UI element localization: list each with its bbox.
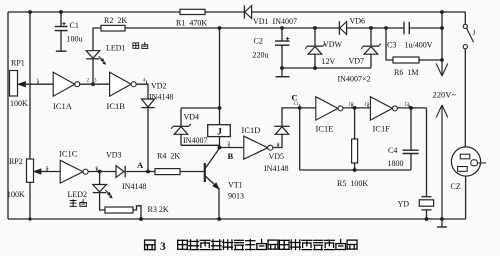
wire IC1F out down to YD [426, 108, 428, 197]
junction mains bus top [440, 10, 444, 14]
svg-text:IC1B: IC1B [107, 101, 126, 111]
svg-text:IC1C: IC1C [59, 149, 78, 159]
wire mains bus vertical [441, 12, 443, 60]
svg-text:IC1A: IC1A [53, 101, 73, 111]
resistor R6 [393, 57, 419, 63]
ground at mains bottom [441, 219, 443, 227]
svg-text:J: J [217, 127, 222, 137]
svg-text:12V: 12V [322, 57, 336, 66]
wire R4 to VT1 base [180, 171, 204, 173]
wire from C3 to mains bus [409, 27, 442, 29]
svg-text:RP1: RP1 [11, 59, 25, 68]
wire IC1C out [88, 171, 116, 173]
junction LED1 at gate node [91, 82, 95, 86]
svg-text:R1 470K: R1 470K [176, 18, 207, 27]
wire VD2 cathode down to node A [147, 108, 149, 171]
svg-text:VD4: VD4 [184, 113, 200, 122]
svg-text:3: 3 [160, 241, 166, 253]
svg-text:C4: C4 [388, 146, 397, 155]
junction R5 bottom [353, 168, 357, 172]
potentiometer RP2 [27, 159, 34, 182]
wire C2 stem top [281, 28, 283, 41]
wire VD4 loop bottom [181, 144, 220, 146]
junction mains bus at C3 wire [440, 26, 444, 30]
wire rectifier ground bus [282, 67, 371, 69]
zener diode VDW [307, 45, 323, 47]
inverter IC1E [316, 97, 338, 120]
svg-text:RP2: RP2 [9, 157, 23, 166]
wire oscillator feedback bottom [300, 169, 411, 171]
svg-text:13: 13 [364, 103, 370, 108]
wire second rail upper [29, 12, 31, 159]
wire IC1C out down to LED2 [99, 172, 101, 185]
svg-text:R5 100K: R5 100K [337, 179, 368, 188]
wire second rail lower [29, 182, 31, 219]
inverter IC1F [370, 97, 392, 120]
svg-text:VD1 IN4007: VD1 IN4007 [253, 17, 297, 26]
wire R5 stem top [354, 108, 356, 139]
svg-text:A: A [137, 160, 144, 170]
transistor VT1 [204, 163, 206, 182]
wire C1 stem [60, 12, 62, 27]
wire VDW stem top [314, 28, 316, 46]
wire VD4 left upper [180, 108, 182, 126]
wire top rail between R1 and VD1 [205, 11, 244, 13]
wire bottom ground rail [8, 218, 466, 220]
svg-text:YD: YD [398, 200, 410, 209]
wire left rail [7, 12, 9, 219]
svg-text:J: J [473, 29, 476, 37]
resistor R5 [352, 139, 358, 163]
junction second rail top [28, 10, 32, 14]
wire R6 right to mains bus [419, 59, 442, 61]
wire top rail right (mains side) [252, 11, 465, 13]
ground for C1 [56, 50, 67, 52]
svg-text:R3 2K: R3 2K [148, 205, 169, 214]
wire VD7 stem top [370, 28, 372, 46]
svg-text:9013: 9013 [228, 192, 244, 201]
svg-text:R2 2K: R2 2K [104, 16, 127, 25]
wire VDD rail from R2 to VD6 [125, 27, 339, 29]
wire top rail left segment [8, 11, 180, 13]
node C [298, 106, 302, 110]
wire node B to IC1D [220, 147, 244, 149]
svg-text:VD7: VD7 [349, 57, 365, 66]
wire VDD to relay bus [219, 28, 221, 148]
wire VD7 stem bottom [370, 54, 372, 68]
svg-text:IN4007: IN4007 [183, 136, 207, 145]
wire VD5 up to node C wire [282, 108, 300, 126]
svg-text:CZ: CZ [451, 182, 461, 191]
svg-text:IN4007×2: IN4007×2 [338, 75, 371, 84]
wire IC1E out to IC1F in [343, 107, 370, 109]
wire switch to CZ socket [464, 49, 466, 147]
junction R5 tap [353, 106, 357, 110]
wire VT1 emitter to ground rail [218, 188, 220, 219]
diode VD6 [338, 21, 340, 35]
switch J [464, 12, 466, 24]
wire C4 top stem [410, 108, 412, 150]
junction relay bus at VDD rail [218, 26, 222, 30]
wire R6 left riser [386, 28, 393, 60]
svg-text:IN4148: IN4148 [122, 182, 146, 191]
svg-text:220u: 220u [253, 51, 269, 60]
diode VD1 [243, 5, 245, 19]
junction C2 bottom [280, 66, 284, 70]
inverter IC1D [244, 136, 268, 159]
inverter IC1C [60, 160, 83, 183]
junction VDW bottom [313, 66, 317, 70]
junction R6 left tap [384, 26, 388, 30]
wire YD to ground rail [426, 210, 428, 219]
junction YD at ground rail [425, 217, 429, 221]
wire R5 stem bottom [354, 163, 356, 170]
capacitor C1 [55, 26, 68, 28]
wire node C down [299, 108, 301, 170]
diode VD2 [142, 99, 155, 107]
ground for C2 [281, 68, 283, 77]
pin tick marks at inverter pins [37, 81, 39, 84]
mains terminal arrow up [441, 105, 443, 219]
svg-text:C: C [292, 93, 298, 103]
inverter IC1B [110, 72, 132, 96]
junction LED2 tap [98, 170, 102, 174]
wire R3 to ground rail [133, 206, 141, 219]
svg-text:C1: C1 [70, 21, 79, 30]
resistor R3 [105, 207, 133, 213]
svg-text:R6 1M: R6 1M [394, 68, 418, 77]
wiper arrow RP2 [39, 171, 60, 173]
svg-text:1u/400V: 1u/400V [405, 41, 433, 50]
svg-text:LED2: LED2 [68, 190, 88, 199]
capacitor C3 [403, 22, 405, 34]
socket CZ [451, 147, 480, 176]
diode VD5 [274, 125, 290, 127]
wire IC1B output [136, 84, 148, 99]
wire VD4 loop top [181, 107, 220, 109]
svg-text:11: 11 [294, 102, 299, 107]
junction mains bus at R6 wire [440, 58, 444, 62]
svg-text:VD2: VD2 [151, 82, 167, 91]
resistor R4 [155, 169, 180, 175]
caption figure 3 title [145, 240, 155, 250]
capacitor C2 [275, 40, 290, 42]
diode VD4 [173, 125, 189, 127]
node A [146, 170, 150, 174]
wire IC1A out to IC1B in [80, 83, 110, 85]
svg-text:C3: C3 [387, 41, 396, 50]
wire LED1 cathode to IC1A output node [92, 59, 94, 84]
LED LED2 [93, 185, 107, 193]
svg-text:100K: 100K [10, 99, 28, 108]
label red color (hongse) [133, 43, 139, 48]
svg-text:1800: 1800 [388, 159, 404, 168]
junction second rail bottom [28, 217, 31, 220]
svg-text:VD6: VD6 [350, 17, 366, 26]
wire CZ bottom to ground rail [465, 176, 467, 219]
junction VT1 emitter at ground rail [217, 217, 221, 221]
piezo sounder YD [422, 196, 432, 198]
diode VD7 [363, 45, 379, 47]
junction C1 top [59, 10, 63, 14]
svg-text:VD5: VD5 [269, 152, 285, 161]
wire C4 bottom stem [410, 154, 412, 171]
svg-text:R4 2K: R4 2K [157, 152, 180, 161]
svg-text:IC1F: IC1F [373, 124, 391, 134]
junction mains arrow at ground rail [440, 217, 444, 221]
capacitor C4 [403, 149, 419, 151]
svg-text:IC1D: IC1D [242, 125, 261, 135]
junction C2 top [280, 26, 284, 30]
wire R2 left elbow down to LED1 [93, 28, 101, 51]
wire VD3 to node A to R4 [126, 171, 155, 173]
wire IC1F output [398, 107, 427, 109]
svg-text:220V~: 220V~ [433, 90, 457, 100]
svg-text:VDW: VDW [323, 40, 343, 49]
svg-text:B: B [228, 151, 234, 161]
junction R3 at ground rail [139, 217, 143, 221]
svg-text:VT1: VT1 [228, 181, 243, 190]
wire IC1D out [273, 134, 282, 148]
resistor R2 [101, 25, 125, 31]
wire VDD rail from VD6 to C3 [347, 27, 404, 29]
node B junction [218, 146, 222, 150]
wire C2 stem bottom [281, 45, 283, 68]
svg-text:IN4148: IN4148 [264, 164, 288, 173]
svg-text:100K: 100K [7, 190, 25, 199]
junction VD4 top [218, 106, 222, 110]
relay coil J [208, 125, 231, 137]
svg-text:LED1: LED1 [106, 44, 126, 53]
junction C4 tap [409, 106, 413, 110]
label green color (luse) [70, 200, 76, 207]
svg-text:IC1E: IC1E [316, 124, 334, 134]
inverter IC1A [53, 72, 75, 96]
mains terminal arrow down [441, 60, 443, 76]
wire VDW stem bottom [314, 54, 316, 68]
svg-text:VD3: VD3 [106, 151, 122, 160]
junction VDW top [313, 26, 317, 30]
LED LED1 [86, 51, 100, 59]
wire node C to IC1E [300, 107, 316, 109]
wiper arrow RP1 [24, 83, 53, 85]
resistor R1 [180, 9, 205, 14]
svg-text:100u: 100u [67, 35, 83, 44]
svg-text:IN4148: IN4148 [149, 93, 173, 102]
diode VD3 [116, 166, 124, 178]
junction VD7 top [369, 26, 373, 30]
wire LED2 to R3 [100, 193, 105, 210]
potentiometer RP1 [10, 71, 18, 97]
svg-text:C2: C2 [254, 37, 263, 46]
wire VD4 left lower [180, 134, 182, 145]
